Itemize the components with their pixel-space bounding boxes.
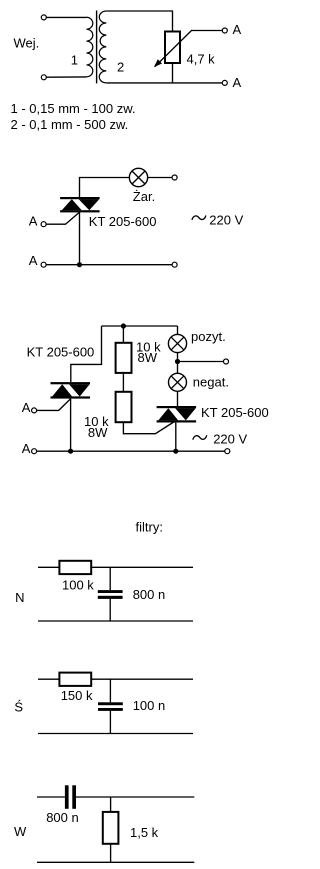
junction right triac/rail <box>173 449 178 454</box>
svg-text:800 n: 800 n <box>46 810 79 825</box>
wire secondary top to pot <box>106 11 172 32</box>
svg-text:A: A <box>29 253 38 268</box>
lamp Zar. <box>129 168 147 186</box>
svg-text:100 n: 100 n <box>133 698 166 713</box>
S top rail right <box>91 678 193 680</box>
triac KT 205-600 <box>60 197 100 199</box>
wire lamp negat to triac <box>177 391 179 407</box>
svg-text:pozyt.: pozyt. <box>191 329 226 344</box>
N top rail left <box>38 566 59 568</box>
S bottom rail <box>38 733 193 735</box>
svg-text:8W: 8W <box>138 350 158 365</box>
wire resistor bottom <box>110 844 112 863</box>
svg-text:4,7 k: 4,7 k <box>187 51 216 66</box>
svg-text:1 - 0,15 mm - 100 zw.: 1 - 0,15 mm - 100 zw. <box>11 101 136 116</box>
wire secondary bottom <box>106 82 222 84</box>
wire wiper to terminal A <box>192 30 222 32</box>
lamp negat. <box>169 373 187 391</box>
svg-text:KT 205-600: KT 205-600 <box>27 344 95 359</box>
resistor R1 10k 8W <box>116 343 132 373</box>
svg-text:100 k: 100 k <box>62 577 94 592</box>
resistor R2 10k 8W <box>116 392 132 422</box>
svg-text:W: W <box>14 824 27 839</box>
wire rail down to lamp pozyt <box>177 326 179 335</box>
terminal A top <box>222 28 227 33</box>
wire gate <box>46 212 79 224</box>
svg-text:Wej.: Wej. <box>14 36 40 51</box>
terminal Wej. bottom <box>41 75 46 80</box>
svg-text:KT 205-600: KT 205-600 <box>201 405 269 420</box>
wire cap bottom <box>109 599 111 621</box>
triac right KT 205-600 <box>157 406 197 408</box>
svg-text:220 V: 220 V <box>213 432 247 447</box>
wire triac to bottom rail <box>79 211 81 264</box>
svg-text:KT 205-600: KT 205-600 <box>89 214 157 229</box>
wire lamp pozyt to negat <box>177 353 179 374</box>
terminal bottom right <box>225 449 230 454</box>
wire cap top <box>109 567 111 590</box>
svg-text:N: N <box>15 590 24 605</box>
triac left KT 205-600 <box>51 382 91 384</box>
wire resistor top <box>110 797 112 812</box>
capacitor 800n plate left <box>65 785 69 809</box>
resistor 100k <box>59 561 91 574</box>
svg-text:A: A <box>233 22 242 37</box>
wire pot bottom <box>172 63 174 83</box>
resistor 150k <box>59 673 91 686</box>
wire R1 to R2 <box>122 373 124 392</box>
terminal A bottom-left <box>32 449 37 454</box>
svg-text:A: A <box>29 214 38 229</box>
AC source ~ 220 V <box>192 216 206 220</box>
terminal A bottom <box>222 80 227 85</box>
top rail <box>102 325 178 327</box>
capacitor 800n plate bottom <box>98 596 123 599</box>
W top rail left <box>37 796 65 798</box>
AC source ~ 220 V <box>193 435 207 439</box>
svg-text:filtry:: filtry: <box>136 520 163 535</box>
capacitor 100n plate top <box>98 702 123 705</box>
svg-text:800 n: 800 n <box>133 587 166 602</box>
W top rail right <box>76 796 194 798</box>
svg-text:8W: 8W <box>88 425 108 440</box>
S top rail left <box>38 678 59 680</box>
svg-text:Żar.: Żar. <box>133 189 155 204</box>
W bottom rail <box>37 861 194 863</box>
wire rail to R1 <box>122 326 124 343</box>
junction left triac/rail <box>68 449 73 454</box>
terminal gate A <box>41 222 46 227</box>
wire input bottom <box>46 76 86 78</box>
wire cap top <box>109 679 111 702</box>
bottom rail <box>46 264 172 266</box>
svg-text:2: 2 <box>117 60 124 75</box>
wire lamp to terminal <box>148 177 172 179</box>
terminal right bottom <box>172 262 177 267</box>
transformer winding 1 <box>87 17 93 77</box>
junction triac/rail <box>77 262 82 267</box>
lamp pozyt. <box>168 334 186 352</box>
svg-text:220 V: 220 V <box>209 212 243 227</box>
wire right triac to rail <box>175 421 177 451</box>
wire triac top to lamp <box>80 178 130 199</box>
svg-text:negat.: negat. <box>193 375 229 390</box>
bottom rail <box>37 450 225 452</box>
wire R2 to right triac gate <box>123 422 174 434</box>
junction mid terminal <box>175 359 180 364</box>
wire junction to terminal <box>178 361 224 363</box>
potentiometer R1 4,7k body <box>165 32 180 64</box>
wire gate left <box>37 399 71 411</box>
wire top rail to left triac <box>71 326 102 382</box>
svg-text:1: 1 <box>71 53 78 68</box>
resistor 1,5k <box>103 812 119 844</box>
wire cap bottom <box>109 711 111 734</box>
svg-text:2 - 0,1 mm - 500 zw.: 2 - 0,1 mm - 500 zw. <box>11 117 129 132</box>
terminal A bottom-left <box>41 262 46 267</box>
N top rail right <box>91 566 193 568</box>
N bottom rail <box>38 620 193 622</box>
transformer winding 2 <box>99 11 106 83</box>
terminal mid right <box>224 359 229 364</box>
svg-text:1,5 k: 1,5 k <box>130 825 159 840</box>
terminal Wej. top <box>41 15 46 20</box>
svg-text:A: A <box>22 441 31 456</box>
svg-text:Ś: Ś <box>14 700 23 715</box>
wire left triac to rail <box>70 398 72 452</box>
capacitor 100n plate bottom <box>98 708 123 711</box>
svg-text:A: A <box>233 75 242 90</box>
capacitor 800n plate top <box>98 590 123 593</box>
svg-text:150 k: 150 k <box>61 688 93 703</box>
junction top rail / resistor chain <box>121 323 126 328</box>
terminal gate A left <box>32 408 37 413</box>
capacitor 800n plate right <box>72 785 76 809</box>
potentiometer wiper arrow <box>155 30 192 67</box>
transformer core <box>96 11 98 84</box>
terminal right top <box>172 175 177 180</box>
wire input top <box>46 16 86 18</box>
svg-text:A: A <box>22 400 31 415</box>
